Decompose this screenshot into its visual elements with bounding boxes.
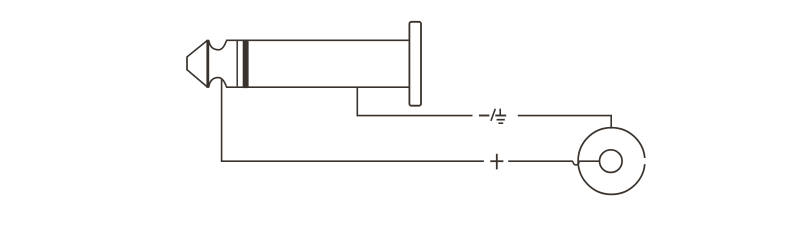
coil rim gap eraser xyxy=(643,158,650,164)
plug collar right edge xyxy=(236,41,238,86)
minus label xyxy=(479,115,489,117)
wire tip drop xyxy=(221,80,223,162)
wire hop over coil rim xyxy=(573,161,579,165)
plug tip base bar xyxy=(206,40,209,88)
wire sleeve drop xyxy=(356,87,358,116)
slash xyxy=(491,109,495,121)
ground symbol bar 1 xyxy=(495,115,506,117)
ground symbol bar 2 xyxy=(497,119,505,121)
sleeve barrel bottom line xyxy=(226,86,410,88)
flange xyxy=(409,22,421,106)
coil outer rim xyxy=(578,128,645,195)
wire tip into coil xyxy=(579,160,600,162)
wire tip to hop xyxy=(508,160,573,162)
plug tip cone bottom edge xyxy=(187,69,208,87)
sleeve barrel top line xyxy=(226,39,410,41)
plus label horizontal bar xyxy=(490,160,503,162)
insulator ring xyxy=(243,40,249,89)
coil inner circle xyxy=(600,150,623,173)
plus label vertical bar xyxy=(496,154,498,170)
wire tip horizontal xyxy=(221,160,484,162)
plug neck groove top xyxy=(209,40,227,50)
wire sleeve to coil xyxy=(518,116,611,129)
ground symbol stub xyxy=(499,109,501,116)
plug neck groove bottom xyxy=(209,78,227,88)
plug tip cone top edge xyxy=(187,40,208,57)
wire sleeve horizontal xyxy=(357,115,473,117)
ground symbol bar 3 xyxy=(498,122,503,124)
plug tip flat face xyxy=(186,57,188,70)
